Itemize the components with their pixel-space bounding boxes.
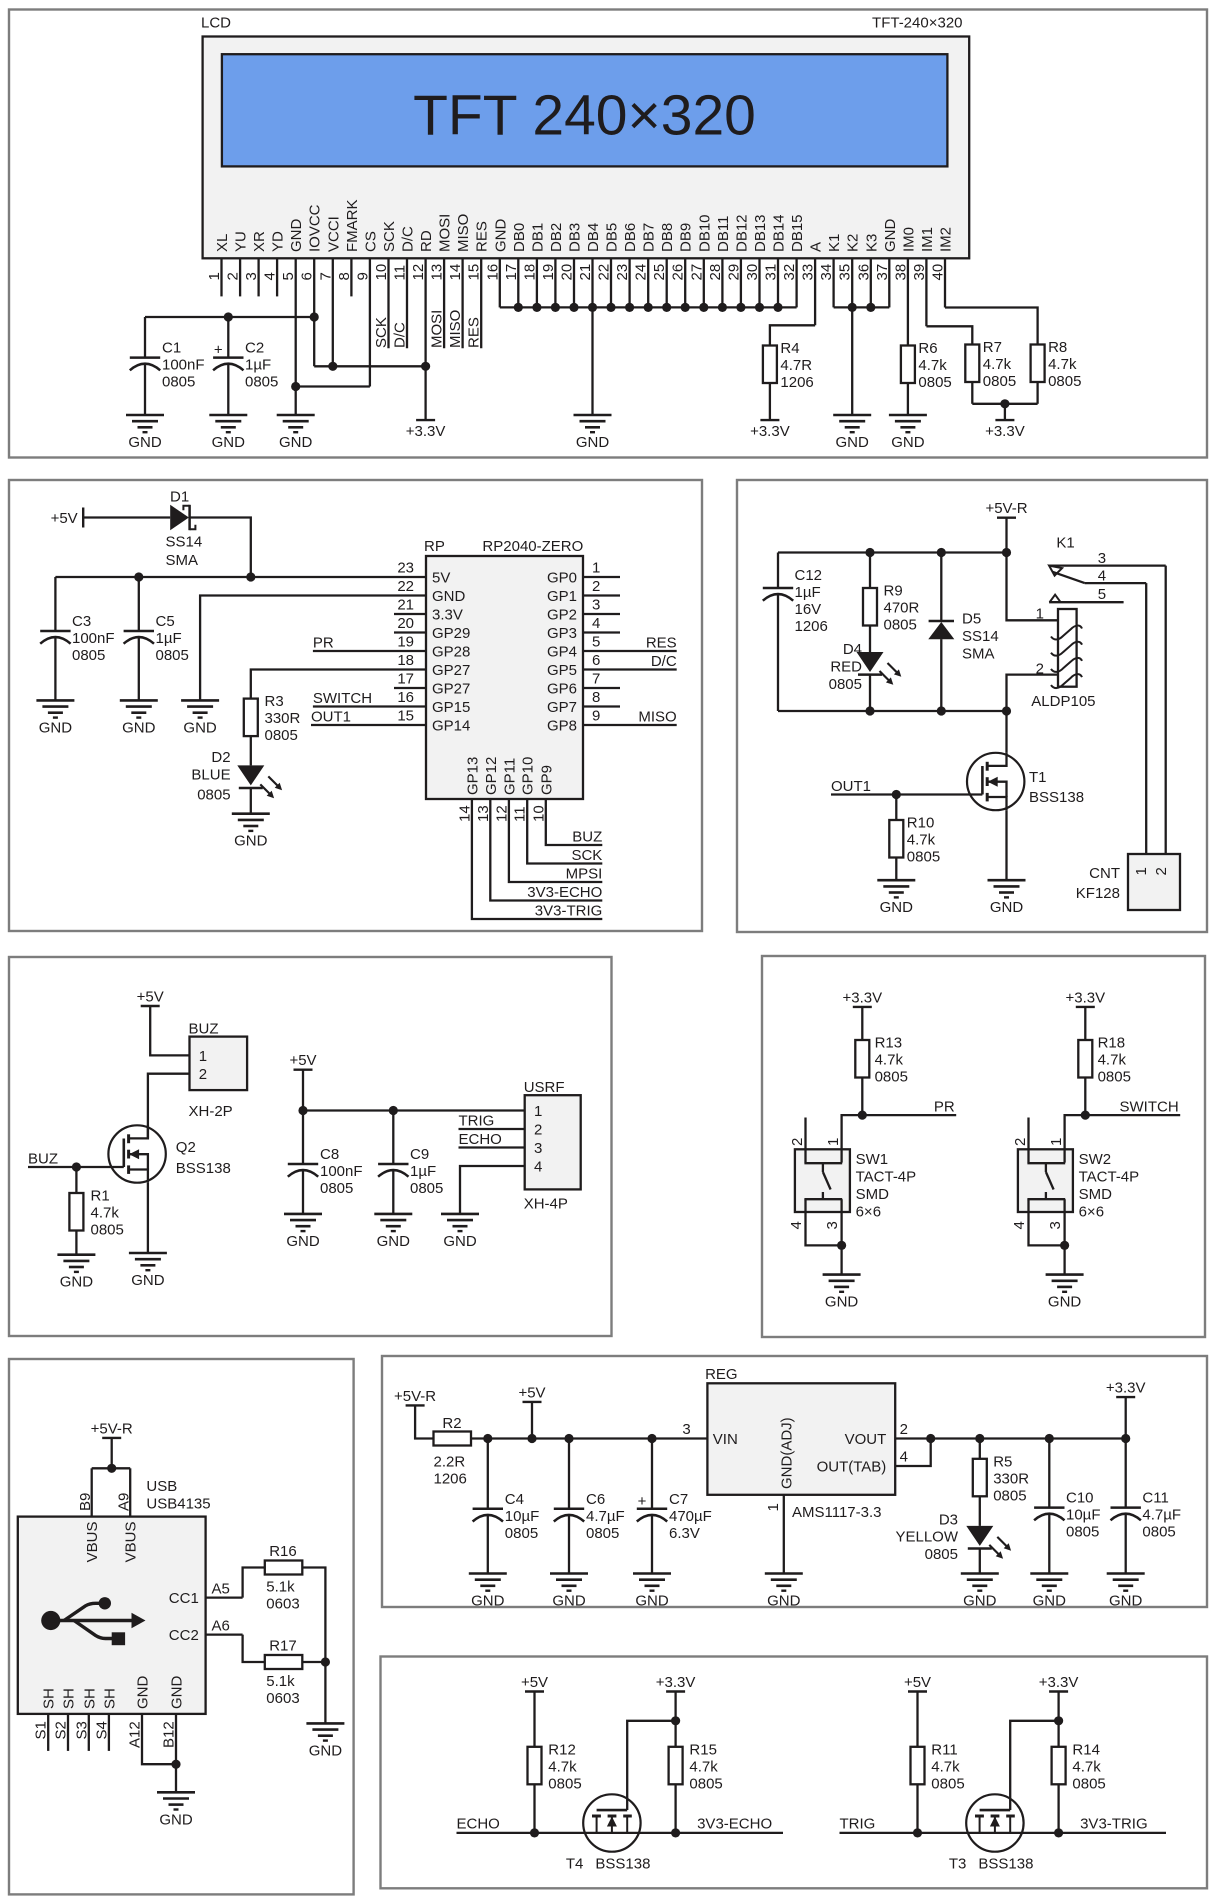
wire +5V-R to VBUS pins: [92, 1438, 131, 1517]
svg-text:GND: GND: [432, 588, 466, 605]
junction DB bus pin 19: [551, 303, 560, 312]
svg-text:+3.3V: +3.3V: [406, 423, 446, 440]
connector CNT KF128: [1076, 854, 1180, 910]
junction R15: [671, 1828, 680, 1837]
wire 3.3V output rail: [931, 1437, 1126, 1439]
svg-text:A: A: [808, 242, 825, 252]
svg-text:GP29: GP29: [432, 625, 470, 642]
svg-text:1206: 1206: [434, 1471, 467, 1488]
svg-text:3.3V: 3.3V: [432, 607, 463, 624]
svg-text:C1: C1: [162, 340, 181, 357]
svg-text:R17: R17: [269, 1638, 297, 1655]
wire TRIG to 3V3-TRIG: [840, 1832, 1167, 1834]
svg-text:GND: GND: [767, 1593, 801, 1610]
wire net PR: [862, 1114, 956, 1116]
junction DB bus pin 17: [514, 303, 523, 312]
svg-text:DB1: DB1: [529, 223, 546, 252]
transistor T4 BSS138: [566, 1794, 651, 1872]
svg-text:+5V: +5V: [51, 510, 78, 527]
svg-text:AMS1117-3.3: AMS1117-3.3: [792, 1504, 882, 1521]
USB shield pin S3 (SH): [73, 1688, 98, 1751]
power +5V-R (relay): [985, 500, 1027, 518]
wire R16 to ground column: [302, 1568, 325, 1663]
section frame: tact switches: [762, 956, 1205, 1337]
wire BUZ net to Q2 gate: [28, 1166, 124, 1168]
LCD pin 23 (DB6): [614, 223, 639, 308]
svg-text:19: 19: [397, 634, 414, 651]
svg-text:4.7µF: 4.7µF: [586, 1508, 625, 1525]
LCD pin 12 (RD): [410, 230, 435, 366]
USB shield pin S1 (SH): [33, 1688, 58, 1751]
svg-text:4.7k: 4.7k: [548, 1758, 577, 1775]
svg-text:ALDP105: ALDP105: [1031, 693, 1095, 710]
svg-text:TFT-240×320: TFT-240×320: [872, 15, 962, 32]
power +3.3V (R13): [842, 989, 882, 1007]
svg-text:6: 6: [592, 652, 600, 669]
svg-text:MISO: MISO: [455, 214, 472, 252]
junction DB bus pin 20: [569, 303, 578, 312]
svg-text:DB13: DB13: [752, 214, 769, 252]
svg-text:BUZ: BUZ: [28, 1151, 58, 1168]
svg-text:+5V-R: +5V-R: [394, 1388, 436, 1405]
svg-text:C4: C4: [505, 1491, 524, 1508]
power +5V-R (regulator input): [394, 1388, 436, 1406]
LED D3 YELLOW: [895, 1496, 1011, 1563]
svg-text:S1: S1: [33, 1721, 50, 1739]
svg-text:SS14: SS14: [962, 628, 999, 645]
svg-text:4: 4: [788, 1221, 805, 1229]
junction DB bus pin 18: [532, 303, 541, 312]
svg-text:DB0: DB0: [511, 223, 528, 252]
svg-text:SH: SH: [41, 1688, 58, 1709]
svg-text:T4: T4: [566, 1856, 584, 1873]
RP pin 21 (3.3V): [394, 597, 463, 624]
svg-text:0805: 0805: [410, 1180, 443, 1197]
wire net SWITCH: [1085, 1114, 1180, 1116]
svg-text:3V3-ECHO: 3V3-ECHO: [527, 884, 602, 901]
section frame: RP2040-ZERO: [9, 480, 702, 931]
svg-text:S3: S3: [73, 1721, 90, 1739]
resistor R3: [244, 693, 301, 744]
RP pin 9 (GP8): [547, 708, 677, 735]
svg-text:10µF: 10µF: [505, 1508, 540, 1525]
svg-text:GP9: GP9: [538, 765, 555, 795]
power +5V-R (USB): [91, 1420, 133, 1438]
svg-text:R14: R14: [1072, 1741, 1100, 1758]
junction R9 top: [865, 548, 874, 557]
junction +5V: [527, 1434, 536, 1443]
LCD pin 2 (YU): [225, 231, 250, 296]
svg-text:10: 10: [530, 805, 547, 822]
svg-text:0805: 0805: [320, 1180, 353, 1197]
power +3.3V under R4: [750, 420, 790, 440]
svg-text:2: 2: [900, 1421, 908, 1438]
junction RD pin 12: [421, 362, 430, 371]
wire +3.3V to gate/R14: [1010, 1692, 1058, 1811]
junction C2 top: [224, 312, 233, 321]
resistor R7: [965, 339, 1016, 390]
LCD pin 39 (IM1): [911, 227, 936, 326]
svg-text:0805: 0805: [1072, 1775, 1105, 1792]
capacitor C2: [213, 317, 278, 415]
svg-text:GND: GND: [963, 1593, 997, 1610]
USB pin B12 (GND): [161, 1676, 186, 1793]
svg-text:A12: A12: [127, 1721, 144, 1748]
ground under C9: [374, 1214, 412, 1250]
wire R2 to VIN: [471, 1437, 707, 1439]
wire CC2 to R17: [243, 1635, 265, 1662]
connector USB USB4135 body: [18, 1517, 206, 1714]
ground under C4: [469, 1574, 507, 1610]
LCD pin 17 (DB0): [503, 223, 528, 308]
svg-text:B9: B9: [77, 1493, 94, 1511]
svg-text:+5V: +5V: [289, 1052, 316, 1069]
LCD pin 28 (DB11): [707, 216, 732, 308]
RP pin 6 (GP5): [547, 652, 677, 679]
resistor R10: [889, 795, 940, 866]
USB pin CC2 (A6): [169, 1618, 243, 1645]
svg-text:SMA: SMA: [166, 552, 199, 569]
svg-text:XR: XR: [251, 231, 268, 252]
svg-text:22: 22: [397, 578, 414, 595]
svg-text:GP6: GP6: [547, 681, 577, 698]
wire to SW1 pin 1: [842, 1115, 863, 1149]
svg-text:2: 2: [592, 578, 600, 595]
svg-text:GND: GND: [122, 719, 156, 736]
junction R7/R8: [1000, 399, 1009, 408]
ground under USRF pin 4: [441, 1214, 479, 1250]
svg-text:SMA: SMA: [962, 646, 995, 663]
svg-text:0805: 0805: [931, 1775, 964, 1792]
power +3.3V under pin 12: [406, 420, 446, 440]
REG pin 1 to ground: [783, 1495, 785, 1574]
svg-text:PR: PR: [934, 1099, 955, 1116]
svg-text:R15: R15: [689, 1741, 717, 1758]
junction DB bus pin 29: [736, 303, 745, 312]
svg-text:GND: GND: [212, 434, 246, 451]
junction R14: [1054, 1828, 1063, 1837]
svg-text:GND: GND: [286, 1233, 320, 1250]
svg-text:4.7k: 4.7k: [91, 1205, 120, 1222]
svg-text:BLUE: BLUE: [191, 767, 230, 784]
svg-text:GND: GND: [1033, 1593, 1067, 1610]
RP pin 1 (GP0): [547, 560, 620, 587]
svg-text:T1: T1: [1029, 769, 1047, 786]
svg-text:SWITCH: SWITCH: [1120, 1099, 1179, 1116]
svg-text:R16: R16: [269, 1543, 297, 1560]
ground under C11: [1107, 1574, 1145, 1610]
ground under D3: [961, 1574, 999, 1610]
svg-text:3: 3: [824, 1221, 841, 1229]
LED D4 RED: [829, 641, 902, 693]
svg-text:GND: GND: [288, 219, 305, 253]
svg-text:4: 4: [534, 1159, 542, 1176]
svg-text:C7: C7: [669, 1491, 688, 1508]
svg-text:GP8: GP8: [547, 718, 577, 735]
junction A12/B12: [171, 1760, 180, 1769]
svg-text:D/C: D/C: [392, 322, 409, 348]
junction C11/+3.3V: [1121, 1434, 1130, 1443]
LCD pin 21 (DB4): [577, 223, 602, 308]
USB shield pin S2 (SH): [53, 1688, 78, 1751]
svg-text:YELLOW: YELLOW: [895, 1529, 958, 1546]
svg-text:4.7k: 4.7k: [918, 357, 947, 374]
wire R9 to D4: [869, 626, 871, 653]
capacitor C6: [554, 1439, 625, 1574]
svg-text:330R: 330R: [993, 1470, 1029, 1487]
svg-text:16V: 16V: [795, 601, 822, 618]
svg-text:DB4: DB4: [585, 223, 602, 252]
USB pin CC1 (A5): [169, 1581, 243, 1608]
wire +5V to R12: [533, 1692, 535, 1747]
svg-text:VIN: VIN: [713, 1431, 738, 1448]
svg-text:4.7µF: 4.7µF: [1142, 1507, 1181, 1524]
RP pin 17 (GP27): [394, 671, 470, 698]
svg-text:GND: GND: [1109, 1593, 1143, 1610]
svg-text:1206: 1206: [780, 374, 813, 391]
svg-text:GND: GND: [279, 434, 313, 451]
svg-text:R5: R5: [993, 1453, 1012, 1470]
junction pin6/IOVCC: [310, 312, 319, 321]
junction D5 top: [937, 548, 946, 557]
svg-text:VBUS: VBUS: [84, 1522, 101, 1563]
LCD pin 10 (SCK): [373, 221, 398, 348]
junction R12: [530, 1828, 539, 1837]
section frame: LCD/TFT display: [9, 10, 1207, 458]
wire +5V to BUZ pin 1: [150, 1006, 189, 1055]
switch SW1 TACT-4P: [788, 1138, 916, 1230]
svg-text:BUZ: BUZ: [189, 1021, 219, 1038]
junction gate/R14: [1054, 1716, 1063, 1725]
svg-text:DB10: DB10: [696, 214, 713, 252]
svg-text:D/C: D/C: [651, 653, 677, 670]
svg-text:MISO: MISO: [447, 310, 464, 348]
svg-text:13: 13: [475, 805, 492, 822]
svg-text:R18: R18: [1098, 1035, 1126, 1052]
svg-text:+5V: +5V: [904, 1674, 931, 1691]
svg-text:GND: GND: [60, 1274, 94, 1291]
svg-text:12: 12: [493, 805, 510, 822]
RP pin 23 (5V): [397, 560, 450, 587]
svg-text:XH-4P: XH-4P: [524, 1196, 568, 1213]
regulator REG AMS1117-3.3: [682, 1366, 908, 1495]
wire TRIG to USRF pin 2: [459, 1128, 525, 1130]
ground under C5: [120, 700, 158, 736]
svg-text:R3: R3: [265, 693, 284, 710]
svg-text:4: 4: [900, 1449, 908, 1466]
svg-text:+5V-R: +5V-R: [91, 1420, 133, 1437]
wire DB0-DB15 ground bus: [500, 306, 797, 308]
svg-text:SCK: SCK: [373, 317, 390, 348]
svg-text:3: 3: [534, 1140, 542, 1157]
svg-text:4.7k: 4.7k: [689, 1758, 718, 1775]
LCD pin 3 (XR): [243, 231, 268, 296]
svg-text:GP5: GP5: [547, 662, 577, 679]
wire K1-K3/GND bus: [834, 306, 890, 308]
wire T1 source to ground: [1005, 810, 1007, 880]
svg-text:2: 2: [1153, 867, 1170, 875]
svg-text:ECHO: ECHO: [459, 1131, 502, 1148]
svg-text:YU: YU: [233, 231, 250, 252]
svg-text:0805: 0805: [1048, 373, 1081, 390]
SW1 pin 2 stub: [804, 1118, 806, 1150]
power +5V (USRF): [289, 1052, 316, 1070]
svg-text:4: 4: [1098, 567, 1106, 584]
svg-text:17: 17: [397, 671, 414, 688]
svg-text:TACT-4P: TACT-4P: [1079, 1169, 1140, 1186]
LCD pin 16 (GND): [484, 219, 509, 308]
svg-text:K1: K1: [1056, 535, 1074, 552]
connector USRF XH-4P: [524, 1079, 581, 1213]
svg-text:D4: D4: [843, 641, 862, 658]
junction C7: [647, 1434, 656, 1443]
svg-text:D/C: D/C: [400, 226, 417, 252]
svg-text:8: 8: [592, 689, 600, 706]
svg-text:R6: R6: [918, 340, 937, 357]
svg-text:3: 3: [592, 597, 600, 614]
wire D4 to bottom rail: [869, 675, 871, 711]
relay K1 contacts: [1049, 535, 1166, 603]
svg-text:0805: 0805: [197, 787, 230, 804]
svg-text:GND: GND: [1048, 1294, 1082, 1311]
svg-text:1: 1: [534, 1103, 542, 1120]
wire +3.3V to R13: [861, 1007, 863, 1040]
svg-text:DB5: DB5: [604, 223, 621, 252]
svg-text:GND: GND: [552, 1593, 586, 1610]
wire VOUT pin 2: [895, 1437, 931, 1439]
wire to +3.3V symbol: [424, 366, 426, 420]
svg-text:C5: C5: [156, 613, 175, 630]
svg-text:0805: 0805: [162, 374, 195, 391]
svg-text:MOSI: MOSI: [429, 310, 446, 348]
svg-text:SW1: SW1: [856, 1151, 889, 1168]
svg-text:K3: K3: [863, 234, 880, 252]
RP pin 16 (GP15): [313, 689, 470, 716]
LCD pin 6 (IOVCC): [299, 204, 324, 366]
svg-text:C12: C12: [795, 567, 823, 584]
ground under pin 22 wire: [181, 700, 219, 736]
svg-text:DB11: DB11: [715, 216, 732, 252]
LCD pin 31 (DB14): [763, 214, 788, 307]
wire +5V to R11: [916, 1692, 918, 1747]
svg-text:100nF: 100nF: [162, 357, 205, 374]
svg-text:1µF: 1µF: [245, 357, 271, 374]
svg-text:1: 1: [1048, 1138, 1065, 1146]
junction DB bus pin 26: [681, 303, 690, 312]
svg-text:0805: 0805: [1066, 1524, 1099, 1541]
svg-text:GND: GND: [234, 833, 268, 850]
svg-text:0805: 0805: [156, 647, 189, 664]
svg-text:5: 5: [1098, 586, 1106, 603]
svg-text:0805: 0805: [983, 373, 1016, 390]
ground under C2: [209, 415, 247, 451]
wire SW2 pins 3/4 to ground: [1029, 1212, 1065, 1275]
transistor T1 BSS138: [967, 753, 1084, 810]
LCD pin 15 (RES): [466, 221, 491, 348]
svg-text:0805: 0805: [993, 1487, 1026, 1504]
ground under USB: [157, 1792, 195, 1828]
svg-text:A5: A5: [212, 1581, 230, 1598]
RP pin 2 (GP1): [547, 578, 620, 605]
svg-text:4: 4: [592, 615, 600, 632]
svg-text:GND: GND: [309, 1742, 343, 1759]
capacitor C1: [130, 317, 205, 415]
svg-text:+3.3V: +3.3V: [1106, 1380, 1146, 1397]
capacitor C8: [288, 1111, 363, 1214]
svg-text:PR: PR: [313, 635, 334, 652]
junction VCCI pin 7: [328, 362, 337, 371]
RP pin 15 (GP14): [311, 708, 470, 735]
svg-text:K2: K2: [845, 234, 862, 252]
svg-text:C9: C9: [410, 1146, 429, 1163]
svg-text:GND: GND: [882, 219, 899, 253]
svg-text:TRIG: TRIG: [459, 1113, 495, 1130]
svg-text:TRIG: TRIG: [840, 1815, 876, 1832]
svg-text:9: 9: [592, 708, 600, 725]
RP2040-ZERO IC body: [426, 556, 583, 799]
power +3.3V under R7/R8: [985, 420, 1025, 440]
wire relay pin 3 to CNT 2: [1165, 566, 1167, 854]
svg-text:0805: 0805: [875, 1069, 908, 1086]
LCD pin 24 (DB7): [633, 223, 658, 308]
power +3.3V (R15): [656, 1674, 696, 1692]
wire +5V drop: [531, 1402, 533, 1439]
resistor R6: [901, 340, 952, 391]
svg-text:C11: C11: [1142, 1490, 1168, 1507]
svg-text:3: 3: [1047, 1221, 1064, 1229]
svg-text:3: 3: [682, 1421, 690, 1438]
capacitor C4: [473, 1439, 540, 1574]
wire pin 40 (IM2) to R8: [945, 308, 1038, 345]
wire R12 to ECHO wire: [533, 1784, 535, 1833]
svg-text:GP1: GP1: [547, 588, 577, 605]
svg-text:GND: GND: [128, 434, 162, 451]
svg-text:XH-2P: XH-2P: [189, 1103, 233, 1120]
wire IOVCC rail to C1/C2: [145, 316, 314, 318]
wire R17 to ground: [302, 1661, 325, 1663]
junction D4 bottom: [865, 706, 874, 715]
svg-text:USRF: USRF: [524, 1079, 565, 1096]
resistor R17: [265, 1638, 303, 1708]
svg-text:4.7k: 4.7k: [1048, 356, 1077, 373]
svg-text:MPSI: MPSI: [566, 866, 603, 883]
svg-text:2: 2: [534, 1122, 542, 1139]
svg-text:R4: R4: [780, 340, 799, 357]
junction coil pin2/T1 drain: [1002, 706, 1011, 715]
RP pin 12 (GP11) wire to net MPSI: [493, 758, 602, 882]
svg-text:0805: 0805: [1142, 1524, 1175, 1541]
svg-text:0805: 0805: [505, 1525, 538, 1542]
relay K1 coil ALDP105: [1031, 606, 1095, 710]
resistor R2: [434, 1415, 472, 1488]
wire CS to GND tie: [296, 385, 370, 387]
wire K bus to ground: [851, 307, 853, 415]
wire R3 to D2: [250, 736, 252, 765]
svg-text:+: +: [638, 1493, 647, 1510]
svg-text:SCK: SCK: [571, 847, 602, 864]
svg-text:VOUT: VOUT: [845, 1431, 887, 1448]
RP pin 5 (GP4): [547, 634, 677, 661]
ground under DB bus: [574, 415, 612, 451]
svg-text:4.7k: 4.7k: [1098, 1052, 1127, 1069]
wire T1 drain: [1005, 711, 1007, 753]
junction +5V-R/coil: [1002, 548, 1011, 557]
svg-text:GP27: GP27: [432, 681, 470, 698]
RP pin 7 (GP6): [547, 671, 620, 698]
svg-text:D5: D5: [962, 611, 981, 628]
svg-text:R7: R7: [983, 339, 1002, 356]
svg-text:A6: A6: [212, 1618, 230, 1635]
